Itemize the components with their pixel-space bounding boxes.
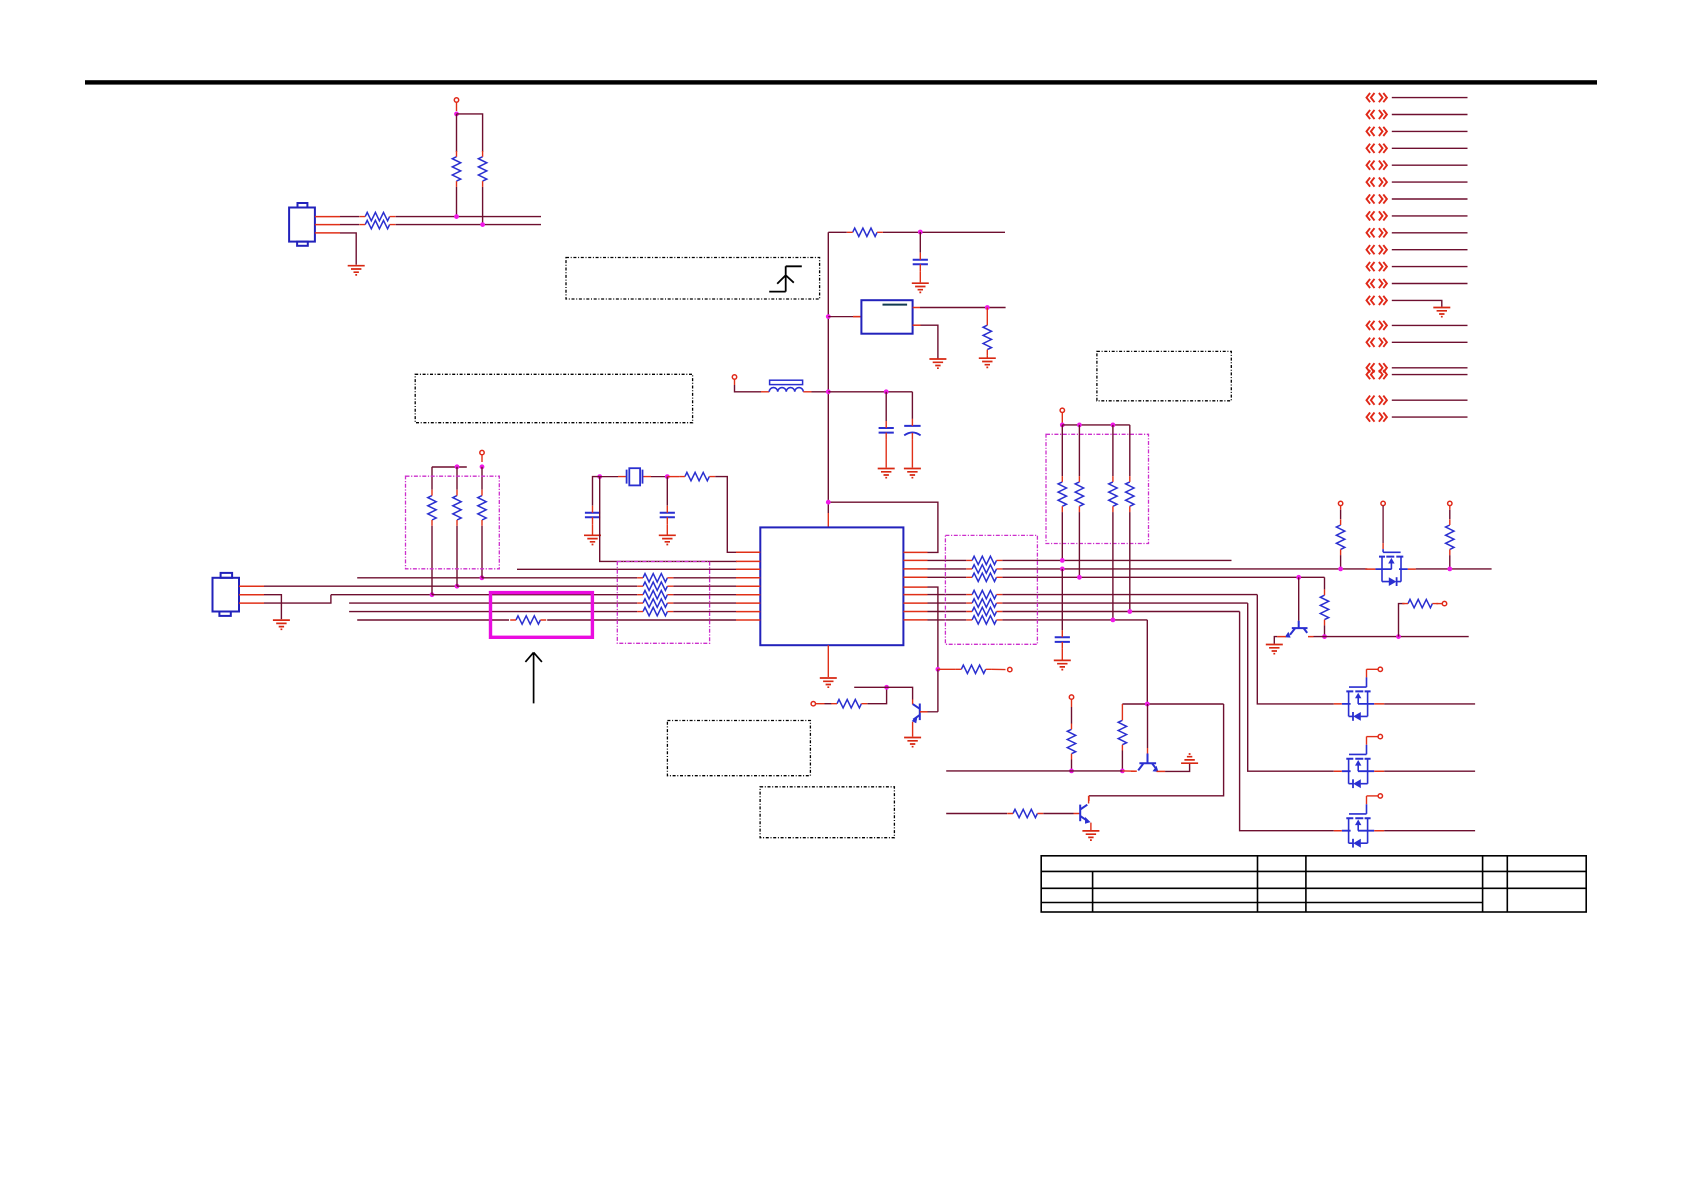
ground at Q4 xyxy=(1082,831,1099,840)
wire U1 pin to rail top xyxy=(828,502,938,552)
reg input stub xyxy=(828,316,861,318)
net stub row 8 xyxy=(1367,211,1387,220)
net stub row 9 xyxy=(1367,228,1387,237)
wire xyxy=(1436,603,1442,605)
wire net row 2 xyxy=(1392,114,1468,116)
wire bus to M1 xyxy=(1257,595,1334,704)
resistor R10 pack A xyxy=(643,582,667,590)
U1 left pin 6 stub xyxy=(736,594,760,596)
wire bus L7 xyxy=(349,602,637,604)
wire net row 1 xyxy=(1392,97,1468,99)
wire gate M2 xyxy=(1367,736,1379,738)
wire R15 to collector net xyxy=(867,687,886,703)
resistor R3 pullup xyxy=(452,157,460,181)
wire bus R2 b xyxy=(1002,559,1231,561)
wire bus R9r b xyxy=(1002,619,1147,621)
U1 left pin 7 stub xyxy=(736,602,760,604)
junction xyxy=(455,464,460,469)
wire bus R2 to stub xyxy=(928,559,967,561)
wire to pullup xyxy=(1129,425,1131,476)
port circle M1 gate xyxy=(1378,667,1382,671)
dashed group box D1 xyxy=(406,476,500,569)
wire bus R6r xyxy=(928,594,967,596)
net stub row 3 xyxy=(1367,127,1387,136)
transistor Q1 (NPN) xyxy=(913,704,920,721)
wire R18 to Q4 xyxy=(1043,813,1073,815)
wire collector line Q3 xyxy=(946,770,1122,772)
mosfet M4 (top) xyxy=(1365,543,1415,586)
net stub row 5 xyxy=(1367,161,1387,170)
wire bus R9r xyxy=(928,619,967,621)
junction R3/line xyxy=(454,214,459,219)
wire bus L9 right xyxy=(547,619,736,621)
U2 pin1 bar xyxy=(883,304,908,306)
wire Q3 emitter xyxy=(1165,763,1190,771)
transistor Q4 (NPN) xyxy=(1080,805,1087,822)
resistor pullup quad xyxy=(1075,482,1083,506)
wire pullup to bus xyxy=(1078,512,1080,577)
resistor pack B xyxy=(972,616,996,624)
ground at J1 pin3 xyxy=(348,266,365,275)
connector J2 body xyxy=(213,573,240,616)
wire pullup top xyxy=(432,466,467,468)
wire bus R7r xyxy=(928,602,967,604)
wire stub xyxy=(481,455,483,462)
U1 left pin 1 stub xyxy=(736,551,760,553)
junction C2 tap xyxy=(884,389,889,394)
wire bus L4 right b xyxy=(673,577,736,579)
wire to C3 xyxy=(911,392,913,419)
junction rail/L1 xyxy=(826,389,831,394)
wire net row 17 xyxy=(1392,374,1468,376)
wire C4 to ground xyxy=(592,524,594,534)
wire pullup to bus xyxy=(1061,512,1063,560)
wire M3 drain xyxy=(1384,830,1475,832)
resistor R14 xyxy=(961,665,985,673)
U1 left pin 5 stub xyxy=(736,585,760,587)
junction xyxy=(1338,567,1343,572)
power symbol P3 xyxy=(1448,501,1452,505)
ground at Q1 emitter xyxy=(904,738,921,747)
ground at Q2 xyxy=(1266,645,1283,654)
junction xyxy=(1447,567,1452,572)
junction L5 pullup xyxy=(455,584,460,589)
junction reg input xyxy=(826,314,831,319)
port circle xyxy=(1008,667,1012,671)
wire branch to R4 xyxy=(457,114,483,152)
wire R16 down xyxy=(1121,751,1123,771)
net stub row 11 xyxy=(1367,262,1387,271)
ground under U1 xyxy=(820,678,837,687)
resistor pack B xyxy=(972,607,996,615)
wire stub xyxy=(938,668,956,670)
wire R21 down xyxy=(1340,555,1342,569)
resistor R17 xyxy=(1067,729,1075,753)
U1 right pin 7 stub xyxy=(903,602,927,604)
power symbol at Q1 xyxy=(811,702,815,706)
port circle M2 gate xyxy=(1378,734,1382,738)
wire to L1 xyxy=(735,385,762,392)
dashed group box D4 xyxy=(1046,434,1149,543)
capacitor C6 xyxy=(1055,637,1070,642)
wire net row 15 xyxy=(1392,341,1468,343)
wire Q2 emitter to ground xyxy=(1274,637,1277,644)
wire to pullup xyxy=(1061,425,1063,476)
resistor pullup quad xyxy=(1126,482,1134,506)
wire R14 to port xyxy=(992,668,1006,670)
annotation box B3 xyxy=(1097,351,1231,400)
wire to R17 xyxy=(1071,707,1073,724)
net stub row 1 xyxy=(1367,93,1387,102)
wire bus L8 xyxy=(349,611,637,613)
wire U1 pin to Q1 xyxy=(928,587,938,669)
resistor R15 xyxy=(837,700,861,708)
U1 right pin 6 stub xyxy=(903,594,927,596)
U1 left pin 4 stub xyxy=(736,577,760,579)
resistor R19 xyxy=(1320,595,1328,619)
wire bus R4 xyxy=(928,576,967,578)
stub xyxy=(1449,506,1451,510)
junction L3r xyxy=(1060,567,1065,572)
junction xyxy=(1396,634,1401,639)
wire bus R3 xyxy=(928,568,967,570)
wire quad top xyxy=(1062,424,1130,426)
U1 right pin 3 stub xyxy=(903,568,927,570)
wire crystal to IC pin2 xyxy=(600,477,737,562)
node junction pullup pair xyxy=(454,112,459,117)
wire net row 9 xyxy=(1392,232,1468,234)
junction collector net xyxy=(884,685,889,690)
junction xyxy=(1111,423,1116,428)
resistor R12 pack A xyxy=(643,599,667,607)
title table xyxy=(1041,856,1586,912)
mosfet M2 xyxy=(1334,737,1384,789)
resistor R20 xyxy=(1408,599,1432,607)
wire net row 4 xyxy=(1392,147,1468,149)
net stub row 18 xyxy=(1367,396,1387,405)
wire bus to M3 xyxy=(1240,612,1334,831)
U1 left pin 2 stub xyxy=(736,560,760,562)
wire R4 to line xyxy=(482,187,484,225)
wire to pullup resistor xyxy=(481,467,483,490)
wire C3 to ground xyxy=(911,440,913,468)
wire bus R4 b xyxy=(1002,576,1324,578)
wire net row 3 xyxy=(1392,130,1468,132)
ground under C4 xyxy=(584,535,601,544)
wire to caps xyxy=(828,391,912,393)
J1 pin 2 stub xyxy=(315,224,340,226)
wire IC top pin stub xyxy=(827,513,829,527)
junction L4r xyxy=(1077,575,1082,580)
net stub row 13 xyxy=(1367,296,1387,305)
resistor R5 xyxy=(853,228,877,236)
wire R17 down xyxy=(1071,760,1073,771)
wire R3 to line xyxy=(456,187,458,217)
wire main vertical rail xyxy=(827,232,829,513)
wire J2 pin3 jog xyxy=(264,595,331,603)
wire up to R20 xyxy=(1399,604,1405,637)
wire Q2 base down xyxy=(1298,577,1300,621)
dashed group box D3 xyxy=(945,535,1037,644)
Q1 collector stub xyxy=(912,700,914,705)
power symbol P2 xyxy=(1381,501,1385,505)
dashed group box D2 xyxy=(617,562,709,644)
port circle M3 gate xyxy=(1378,794,1382,798)
resistor pullup quad xyxy=(1109,482,1117,506)
annotation box B4 xyxy=(667,721,810,776)
wire L1 to rail xyxy=(812,391,829,393)
wire R1 to net stub xyxy=(396,216,541,218)
junction crystal left xyxy=(597,474,602,479)
sheet top rule xyxy=(85,80,1597,84)
wire bus R3 after M4 xyxy=(1416,568,1492,570)
resistor R1 xyxy=(365,212,389,220)
wire stub to R7 xyxy=(667,476,679,478)
wire R2 to net stub xyxy=(396,224,541,226)
U1 left pin 3 stub xyxy=(736,568,760,570)
wire C6 to ground xyxy=(1061,649,1063,660)
wire gate M1 xyxy=(1367,668,1379,670)
wire stub left xyxy=(854,686,886,688)
resistor R2 xyxy=(365,220,389,228)
net stub row 14 xyxy=(1367,321,1387,330)
resistor pack B xyxy=(972,565,996,573)
Q4 base stub xyxy=(1074,813,1081,815)
junction Q3 base xyxy=(1145,702,1150,707)
capacitor C2 xyxy=(879,428,894,433)
power symbol VCC top xyxy=(454,98,458,102)
annotation box B2 xyxy=(415,374,692,422)
arrow marker xyxy=(525,652,542,703)
wire Q2 collector line xyxy=(1314,636,1469,638)
wire net row to ground xyxy=(1392,300,1442,306)
ground under C6 xyxy=(1054,660,1071,669)
J1 pin 3 stub xyxy=(315,232,340,234)
ground under C1 xyxy=(912,283,929,292)
ground at net row 13 xyxy=(1433,308,1450,317)
junction Q2 collector xyxy=(1322,634,1327,639)
wire to R3 xyxy=(456,114,458,152)
ground at U2 xyxy=(929,359,946,368)
wire bus R3 to mosfet row xyxy=(1002,568,1367,570)
mosfet M3 xyxy=(1334,796,1384,848)
junction L4 pullup xyxy=(480,575,485,580)
wire C5 to ground xyxy=(666,524,668,534)
resistor R8 in series xyxy=(516,616,540,624)
wire bus L5 right b xyxy=(673,585,736,587)
wire C2 to ground xyxy=(885,440,887,468)
wire stub xyxy=(816,703,825,705)
wire J1 pin1 to R1 xyxy=(340,216,359,218)
wire bus R8r b xyxy=(1002,611,1239,613)
resistor pullup xyxy=(478,496,486,520)
wire bus R6r b xyxy=(1002,594,1257,596)
junction rail xyxy=(826,500,831,505)
wire to pullup resistor xyxy=(456,467,458,490)
net stub row 10 xyxy=(1367,245,1387,254)
wire stub xyxy=(1061,413,1063,425)
power symbol VCC mid xyxy=(480,450,484,454)
wire M2 drain xyxy=(1384,770,1475,772)
wire U2 output xyxy=(920,307,1006,309)
junction L2r xyxy=(1060,558,1065,563)
U1 right pin 9 stub xyxy=(903,619,927,621)
wire to C4 xyxy=(593,477,600,506)
junction L8r xyxy=(1127,609,1132,614)
wire base xyxy=(1147,704,1149,748)
capacitor C5 xyxy=(660,513,675,518)
wire xyxy=(1340,510,1342,519)
net stub row 6 xyxy=(1367,178,1387,187)
wire R5 to stub end xyxy=(883,231,1005,233)
junction quad xyxy=(1060,423,1065,428)
wire to R15 xyxy=(825,703,832,705)
transistor Q2 (NPN, base top) xyxy=(1292,621,1308,628)
edge symbol in B1 xyxy=(769,266,802,291)
wire rail to R5 xyxy=(828,231,847,233)
annotation box B5 xyxy=(760,787,894,838)
wire gate xyxy=(1382,506,1384,543)
resistor R18 xyxy=(1013,809,1037,817)
U1 left pin 9 stub xyxy=(736,619,760,621)
wire net row 8 xyxy=(1392,215,1468,217)
transistor Q3 (NPN, base top) xyxy=(1139,754,1156,764)
wire cross link xyxy=(1122,703,1223,705)
wire R22 down xyxy=(1449,555,1451,569)
wire bus L6 right b xyxy=(673,594,736,596)
wire to R19 xyxy=(1324,577,1326,589)
ground under C5 xyxy=(659,535,676,544)
wire bus R8r xyxy=(928,611,967,613)
wire bus L6 left xyxy=(331,594,432,596)
wire gate M3 xyxy=(1367,795,1379,797)
power symbol P1 xyxy=(1338,501,1342,505)
resistor R21 xyxy=(1336,525,1344,549)
net stub row 4 xyxy=(1367,144,1387,153)
junction xyxy=(1077,423,1082,428)
U1 right pin 4 stub xyxy=(903,576,927,578)
wire to C5 xyxy=(666,477,668,506)
resistor R6 xyxy=(983,325,991,349)
capacitor C1 xyxy=(913,260,928,265)
resistor R16 xyxy=(1118,720,1126,744)
net stub row 7 xyxy=(1367,194,1387,203)
resistor R7 xyxy=(685,472,709,480)
wire U2 gnd pin xyxy=(921,325,938,358)
wire U1 ground pin xyxy=(827,645,829,677)
J2 pin1 stub xyxy=(239,585,264,587)
U1 right pin 2 stub xyxy=(903,559,927,561)
wire stub xyxy=(1071,699,1073,707)
resistor pack B xyxy=(972,556,996,564)
resistor R4 pullup xyxy=(478,157,486,181)
wire net row 10 xyxy=(1392,249,1468,251)
wire bus L9 left xyxy=(357,619,509,621)
wire net row 6 xyxy=(1392,181,1468,183)
wire xyxy=(1449,510,1451,519)
resistor pullup xyxy=(453,496,461,520)
wire pullup to bus xyxy=(1112,512,1114,620)
capacitor C4 xyxy=(585,513,600,518)
wire bus L4 left xyxy=(357,577,482,579)
capacitor C3 polarized xyxy=(904,425,920,427)
resistor pullup xyxy=(428,496,436,520)
resistor R9 pack A xyxy=(643,574,667,582)
wire to C6 xyxy=(1061,569,1063,630)
wire net row 7 xyxy=(1392,198,1468,200)
net stub row 19 xyxy=(1367,413,1387,422)
port circle xyxy=(1442,601,1446,605)
wire bus L5 right xyxy=(457,585,637,587)
U1 right pin 8 stub xyxy=(903,611,927,613)
power symbol at L1 xyxy=(732,375,736,379)
inductor L1 xyxy=(761,391,769,393)
connector J1 body xyxy=(289,203,315,246)
ground under R6 xyxy=(979,358,996,367)
U2 out stub xyxy=(913,307,920,309)
net stub row 16 xyxy=(1367,363,1387,372)
junction R4/line xyxy=(480,222,485,227)
wire R19 down xyxy=(1324,625,1326,636)
junction L6 pullup xyxy=(430,592,435,597)
J1 pin 1 stub xyxy=(315,216,340,218)
wire net row 14 xyxy=(1392,324,1468,326)
wire J1 pin2 to R2 xyxy=(340,224,359,226)
wire to pullup resistor xyxy=(431,467,433,490)
wire Q4 base line xyxy=(946,813,1007,815)
wire down to Q1 base xyxy=(937,669,939,712)
resistor pullup quad xyxy=(1058,482,1066,506)
junction Q2 base xyxy=(1296,575,1301,580)
wire net row 11 xyxy=(1392,266,1468,268)
stub xyxy=(1340,506,1342,510)
junction crystal right xyxy=(665,474,670,479)
ferrite bead bar L1 xyxy=(770,380,803,384)
U1 left pin 8 stub xyxy=(736,611,760,613)
U1 right pin 5 stub xyxy=(903,586,927,588)
wire bus to M2 xyxy=(1248,603,1334,771)
wire M1 drain xyxy=(1384,703,1475,705)
U1 right pin 1 stub xyxy=(903,551,927,553)
wire C1 to ground xyxy=(919,271,921,282)
wire power stub xyxy=(456,102,458,111)
resistor R11 pack A xyxy=(643,591,667,599)
regulator U2 body xyxy=(861,300,912,334)
wire bus R7r b xyxy=(1002,602,1247,604)
wire to R16 xyxy=(1121,704,1123,715)
wire net row 16 xyxy=(1392,367,1468,369)
U2 gnd stub xyxy=(913,324,921,326)
wire to Q4 collector xyxy=(1089,704,1224,796)
wire pullup to bus xyxy=(431,526,433,595)
wire pullup to bus xyxy=(1129,512,1131,611)
ground under C2 xyxy=(878,469,895,478)
resistor pack B xyxy=(972,590,996,598)
junction L9r xyxy=(1111,618,1116,623)
wire stub xyxy=(1088,796,1090,801)
crystal Y1 xyxy=(600,476,618,478)
wire to C2 xyxy=(885,392,887,421)
wire bus L8 b xyxy=(673,611,736,613)
wire net row 18 xyxy=(1392,399,1468,401)
wire bus L4 right xyxy=(482,577,637,579)
junction xyxy=(1069,769,1074,774)
IC U1 body xyxy=(760,527,903,645)
resistor R22 xyxy=(1446,525,1454,549)
ground (inverted) at Q3 xyxy=(1181,754,1198,763)
wire R7 to IC pin xyxy=(715,477,737,553)
junction pullup triple xyxy=(480,464,485,469)
